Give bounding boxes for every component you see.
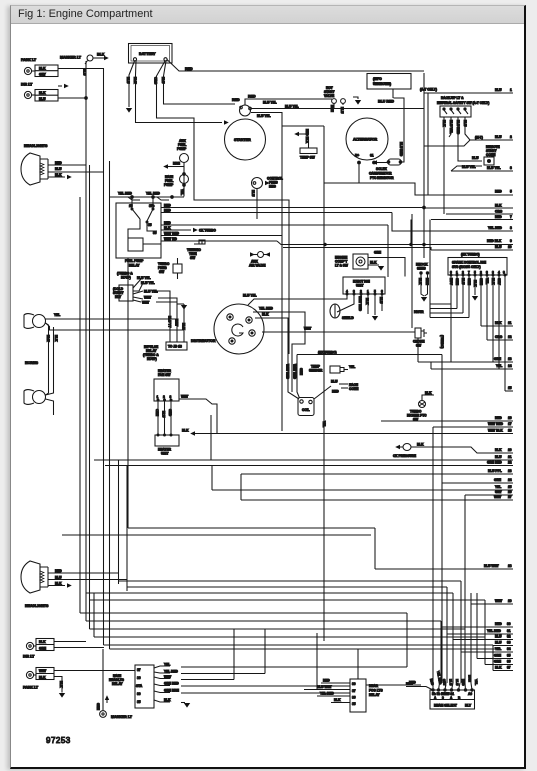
svg-text:WHT RD: WHT RD bbox=[164, 237, 177, 241]
svg-text:GRN RED: GRN RED bbox=[164, 682, 179, 686]
svg-text:WHT: WHT bbox=[175, 319, 179, 326]
svg-text:BLK: BLK bbox=[442, 120, 446, 127]
svg-text:15: 15 bbox=[508, 386, 512, 390]
svg-text:RED: RED bbox=[55, 161, 62, 165]
svg-text:GRY: GRY bbox=[495, 490, 503, 494]
svg-text:BLU YEL: BLU YEL bbox=[449, 120, 453, 134]
svg-text:WHT RED: WHT RED bbox=[358, 296, 362, 312]
svg-text:KOTF): KOTF) bbox=[147, 357, 157, 361]
svg-text:GRN: GRN bbox=[494, 357, 502, 361]
svg-text:WHT: WHT bbox=[142, 301, 149, 305]
svg-text:85: 85 bbox=[137, 700, 141, 704]
svg-text:UNKNOWN): UNKNOWN) bbox=[373, 82, 391, 86]
svg-text:VALVE: VALVE bbox=[324, 94, 334, 98]
svg-text:BLK: BLK bbox=[262, 313, 269, 317]
svg-text:RED: RED bbox=[495, 215, 502, 219]
svg-text:YEL RED: YEL RED bbox=[488, 226, 502, 230]
svg-text:33: 33 bbox=[507, 641, 511, 645]
svg-text:BLU YEL: BLU YEL bbox=[137, 276, 151, 280]
svg-text:RLY: RLY bbox=[115, 295, 122, 299]
svg-text:BLU: BLU bbox=[495, 88, 502, 92]
svg-text:YEL: YEL bbox=[54, 313, 60, 317]
svg-text:ORG: ORG bbox=[495, 210, 503, 214]
svg-text:RED: RED bbox=[55, 569, 62, 573]
svg-text:35: 35 bbox=[507, 654, 511, 658]
svg-text:BRN: BRN bbox=[425, 278, 429, 286]
svg-text:BLU WHT: BLU WHT bbox=[317, 685, 332, 689]
svg-text:BLU YT: BLU YT bbox=[168, 316, 172, 328]
svg-text:CARBURETOR: CARBURETOR bbox=[369, 172, 392, 176]
svg-text:PARK LT: PARK LT bbox=[23, 686, 39, 690]
svg-text:RED: RED bbox=[461, 679, 465, 687]
svg-text:BLU: BLU bbox=[251, 190, 255, 197]
svg-text:KOTF): KOTF) bbox=[121, 276, 131, 280]
svg-text:WHT: WHT bbox=[164, 675, 171, 679]
svg-text:SOLEX: SOLEX bbox=[376, 167, 388, 171]
svg-text:BLU: BLU bbox=[495, 641, 502, 645]
svg-text:BLK: BLK bbox=[39, 67, 46, 71]
svg-text:28: 28 bbox=[508, 564, 512, 568]
svg-text:16: 16 bbox=[508, 416, 512, 420]
svg-text:RED: RED bbox=[164, 221, 171, 225]
svg-text:NEUTRAL SAFETY SW (A-T ONLY): NEUTRAL SAFETY SW (A-T ONLY) bbox=[437, 101, 489, 105]
svg-text:ALTERNATOR: ALTERNATOR bbox=[353, 138, 378, 142]
svg-text:30: 30 bbox=[137, 692, 141, 696]
svg-text:CONN: CONN bbox=[486, 153, 496, 157]
svg-text:BLK: BLK bbox=[97, 53, 105, 57]
svg-text:SHIELD: SHIELD bbox=[342, 316, 354, 320]
svg-text:BLK: BLK bbox=[182, 429, 189, 433]
svg-text:RED: RED bbox=[495, 190, 502, 194]
svg-text:32: 32 bbox=[507, 635, 511, 639]
svg-text:BLU: BLU bbox=[161, 77, 165, 84]
svg-text:BLU: BLU bbox=[39, 97, 46, 101]
svg-text:BLK: BLK bbox=[59, 681, 63, 688]
svg-text:5: 5 bbox=[510, 190, 512, 194]
svg-text:REG: REG bbox=[269, 185, 276, 189]
svg-text:YEL: YEL bbox=[496, 364, 502, 368]
svg-text:GRY: GRY bbox=[39, 73, 47, 77]
svg-text:STA: STA bbox=[136, 684, 143, 688]
svg-text:RED: RED bbox=[323, 679, 330, 683]
svg-text:9: 9 bbox=[510, 239, 512, 243]
svg-text:RED: RED bbox=[185, 67, 193, 71]
svg-text:BRN: BRN bbox=[468, 675, 472, 683]
svg-text:CONN: CONN bbox=[349, 387, 359, 391]
svg-text:BLU: BLU bbox=[455, 679, 459, 686]
svg-text:WHT: WHT bbox=[144, 296, 151, 300]
svg-text:18: 18 bbox=[508, 429, 512, 433]
svg-text:ORG: ORG bbox=[495, 335, 503, 339]
svg-text:BLK: BLK bbox=[55, 173, 62, 177]
svg-text:RED: RED bbox=[164, 209, 171, 213]
svg-text:BLU WHT: BLU WHT bbox=[484, 564, 499, 568]
svg-text:BLK: BLK bbox=[39, 640, 46, 644]
svg-text:31: 31 bbox=[507, 629, 511, 633]
svg-text:WHT RED: WHT RED bbox=[286, 364, 290, 380]
svg-text:A6: A6 bbox=[468, 692, 472, 696]
svg-text:BRN: BRN bbox=[173, 162, 181, 166]
svg-text:14: 14 bbox=[508, 364, 512, 368]
svg-text:34: 34 bbox=[507, 647, 511, 651]
svg-text:BLU YEL: BLU YEL bbox=[144, 290, 158, 294]
svg-text:SENS: SENS bbox=[417, 267, 426, 271]
svg-text:UNIT: UNIT bbox=[161, 452, 168, 456]
svg-text:(M-T): (M-T) bbox=[475, 136, 483, 140]
svg-text:21: 21 bbox=[508, 455, 512, 459]
svg-text:BLU: BLU bbox=[472, 156, 479, 160]
svg-text:BLU: BLU bbox=[379, 297, 383, 304]
svg-text:BLU: BLU bbox=[495, 455, 502, 459]
svg-text:8: 8 bbox=[510, 226, 512, 230]
svg-text:RED BLK: RED BLK bbox=[487, 239, 502, 243]
svg-text:BLU: BLU bbox=[83, 69, 87, 76]
svg-text:GRN RED: GRN RED bbox=[487, 461, 502, 465]
svg-text:2: 2 bbox=[510, 135, 512, 139]
svg-text:DIR LT: DIR LT bbox=[23, 655, 35, 659]
svg-text:85: 85 bbox=[148, 223, 152, 227]
svg-text:WHT RED: WHT RED bbox=[293, 364, 297, 380]
svg-text:FAN SW: FAN SW bbox=[158, 373, 170, 377]
svg-text:BLU: BLU bbox=[340, 107, 344, 114]
svg-text:GRN: GRN bbox=[494, 478, 502, 482]
svg-text:BLU: BLU bbox=[495, 245, 502, 249]
svg-text:CK PRESSURE: CK PRESSURE bbox=[393, 454, 416, 458]
svg-text:9: 9 bbox=[442, 696, 444, 700]
svg-text:30: 30 bbox=[352, 682, 356, 686]
svg-text:RLY: RLY bbox=[465, 704, 472, 708]
svg-text:TEMP SW: TEMP SW bbox=[300, 156, 315, 160]
svg-text:BATTERY: BATTERY bbox=[139, 52, 156, 56]
svg-text:BLU YEL: BLU YEL bbox=[285, 104, 299, 108]
svg-text:BLK: BLK bbox=[495, 204, 502, 208]
svg-text:YEL RED: YEL RED bbox=[164, 670, 178, 674]
svg-text:2: 2 bbox=[163, 395, 165, 399]
svg-text:ORG: ORG bbox=[154, 77, 158, 85]
svg-text:GRD: GRD bbox=[168, 409, 172, 417]
svg-text:(TURBO): (TURBO) bbox=[440, 335, 444, 348]
svg-text:BLK: BLK bbox=[46, 335, 50, 342]
svg-text:YEL: YEL bbox=[164, 663, 170, 667]
svg-text:23: 23 bbox=[508, 469, 512, 473]
svg-text:TO JD 13: TO JD 13 bbox=[168, 345, 182, 349]
svg-text:BLU: BLU bbox=[55, 576, 62, 580]
svg-text:DIR LT: DIR LT bbox=[21, 83, 33, 87]
svg-text:(EX TURBO): (EX TURBO) bbox=[318, 351, 337, 355]
svg-text:87b: 87b bbox=[149, 204, 155, 208]
svg-text:BLK: BLK bbox=[417, 443, 424, 447]
svg-text:29: 29 bbox=[508, 599, 512, 603]
svg-text:25: 25 bbox=[508, 485, 512, 489]
svg-text:30: 30 bbox=[507, 622, 511, 626]
svg-text:24: 24 bbox=[508, 478, 512, 482]
svg-text:10: 10 bbox=[508, 245, 512, 249]
svg-text:(INFO: (INFO bbox=[373, 77, 382, 81]
svg-text:AIR VALVE: AIR VALVE bbox=[249, 264, 266, 268]
svg-text:11: 11 bbox=[508, 321, 512, 325]
svg-text:86: 86 bbox=[137, 676, 141, 680]
svg-text:YEL RED: YEL RED bbox=[487, 629, 501, 633]
svg-text:BLK: BLK bbox=[39, 675, 46, 679]
svg-text:RELAY: RELAY bbox=[129, 264, 140, 268]
svg-text:BLK: BLK bbox=[425, 391, 432, 395]
svg-text:YEL: YEL bbox=[349, 365, 355, 369]
svg-text:RELAY: RELAY bbox=[112, 682, 123, 686]
svg-text:RED: RED bbox=[164, 204, 171, 208]
svg-text:RELAY: RELAY bbox=[369, 693, 380, 697]
svg-text:STARTER: STARTER bbox=[234, 138, 251, 142]
svg-text:BLU YEL: BLU YEL bbox=[243, 294, 257, 298]
svg-text:GRY: GRY bbox=[442, 679, 447, 687]
svg-text:GRN BRN: GRN BRN bbox=[164, 689, 180, 693]
svg-text:37: 37 bbox=[507, 666, 511, 670]
svg-text:BLU PPL: BLU PPL bbox=[488, 469, 502, 473]
svg-text:PUMP: PUMP bbox=[177, 147, 187, 151]
svg-text:85: 85 bbox=[352, 702, 356, 706]
svg-text:BLU: BLU bbox=[495, 135, 502, 139]
svg-text:BLK: BLK bbox=[55, 582, 62, 586]
svg-text:YEL RED: YEL RED bbox=[146, 192, 160, 196]
svg-text:WHT: WHT bbox=[495, 599, 502, 603]
svg-text:BLU: BLU bbox=[55, 167, 62, 171]
svg-text:B+: B+ bbox=[355, 154, 359, 158]
svg-text:RED: RED bbox=[406, 682, 413, 686]
svg-text:PUMP: PUMP bbox=[164, 183, 174, 187]
svg-text:BLK: BLK bbox=[54, 335, 58, 342]
svg-text:UNIT: UNIT bbox=[356, 284, 363, 288]
svg-text:7: 7 bbox=[510, 215, 512, 219]
svg-text:20: 20 bbox=[508, 448, 512, 452]
svg-text:LT & SW: LT & SW bbox=[335, 264, 348, 268]
svg-text:BLU YEL: BLU YEL bbox=[257, 114, 271, 118]
svg-text:GRN: GRN bbox=[494, 654, 502, 658]
svg-text:WHT RED: WHT RED bbox=[488, 422, 504, 426]
svg-text:26: 26 bbox=[508, 490, 512, 494]
svg-text:DISTR: DISTR bbox=[414, 310, 424, 314]
svg-text:CK TURBO: CK TURBO bbox=[199, 229, 216, 233]
svg-text:BLK: BLK bbox=[495, 321, 502, 325]
svg-text:RED: RED bbox=[248, 95, 256, 99]
svg-text:YEL RED: YEL RED bbox=[259, 307, 273, 311]
svg-text:BLK: BLK bbox=[370, 261, 377, 265]
svg-text:61: 61 bbox=[370, 154, 374, 158]
svg-text:HEADLIGHTS: HEADLIGHTS bbox=[25, 604, 49, 608]
svg-text:BLU YEL: BLU YEL bbox=[487, 166, 501, 170]
svg-text:SW: SW bbox=[416, 344, 421, 348]
svg-text:30: 30 bbox=[153, 231, 157, 235]
svg-text:SENDER: SENDER bbox=[309, 369, 323, 373]
svg-text:36: 36 bbox=[507, 660, 511, 664]
svg-text:MARKER LT: MARKER LT bbox=[111, 715, 133, 719]
svg-text:SW: SW bbox=[159, 270, 164, 274]
svg-text:(EX TURBO): (EX TURBO) bbox=[461, 253, 480, 257]
svg-text:GRN: GRN bbox=[299, 368, 303, 376]
svg-text:ORN: ORN bbox=[155, 409, 159, 417]
svg-text:BLU: BLU bbox=[463, 120, 467, 127]
svg-text:WHT: WHT bbox=[181, 395, 188, 399]
svg-text:87: 87 bbox=[352, 689, 356, 693]
svg-text:WHT: WHT bbox=[494, 495, 501, 499]
svg-text:YEL: YEL bbox=[495, 647, 501, 651]
svg-text:PTC RESISTOR: PTC RESISTOR bbox=[370, 176, 394, 180]
svg-text:BLU: BLU bbox=[126, 77, 130, 84]
svg-text:MARKER LT: MARKER LT bbox=[60, 56, 82, 60]
svg-text:HEADLIGHTS: HEADLIGHTS bbox=[24, 144, 48, 148]
svg-text:(A-T ONLY): (A-T ONLY) bbox=[420, 88, 437, 92]
svg-text:17: 17 bbox=[508, 422, 512, 426]
svg-text:GRN: GRN bbox=[39, 646, 47, 650]
svg-text:BLU: BLU bbox=[495, 635, 502, 639]
svg-text:DISTRIBUTOR: DISTRIBUTOR bbox=[191, 339, 216, 343]
svg-text:BEAM SELECT: BEAM SELECT bbox=[434, 704, 457, 708]
svg-text:BLU: BLU bbox=[162, 411, 166, 418]
svg-text:BLK: BLK bbox=[39, 91, 46, 95]
svg-text:COIL: COIL bbox=[302, 408, 310, 412]
svg-text:13: 13 bbox=[508, 357, 512, 361]
svg-text:YEL: YEL bbox=[474, 679, 478, 685]
svg-text:BLU YEL: BLU YEL bbox=[263, 101, 277, 105]
svg-text:WHT BLK: WHT BLK bbox=[488, 429, 503, 433]
svg-text:BLK: BLK bbox=[164, 226, 171, 230]
svg-text:WHT: WHT bbox=[39, 669, 46, 673]
svg-text:1: 1 bbox=[157, 395, 159, 399]
svg-text:BLK: BLK bbox=[495, 448, 502, 452]
svg-text:BLK: BLK bbox=[418, 278, 422, 285]
svg-text:BACK-UP LT &: BACK-UP LT & bbox=[441, 96, 464, 100]
svg-text:3: 3 bbox=[170, 395, 172, 399]
svg-text:RED: RED bbox=[232, 98, 240, 102]
svg-text:RED: RED bbox=[429, 678, 435, 686]
svg-text:RED: RED bbox=[495, 622, 502, 626]
svg-text:3: 3 bbox=[510, 166, 512, 170]
svg-text:BLK: BLK bbox=[133, 77, 137, 84]
svg-text:GRN: GRN bbox=[374, 251, 382, 255]
svg-text:27: 27 bbox=[508, 495, 512, 499]
svg-text:BLK: BLK bbox=[334, 698, 341, 702]
svg-text:BLK: BLK bbox=[182, 323, 186, 330]
svg-text:GRN: GRN bbox=[494, 660, 502, 664]
svg-text:22: 22 bbox=[508, 461, 512, 465]
svg-text:WHT RED: WHT RED bbox=[164, 231, 180, 235]
svg-text:HORNS: HORNS bbox=[25, 361, 39, 365]
svg-text:87: 87 bbox=[137, 668, 141, 672]
svg-text:BLU YEL: BLU YEL bbox=[141, 281, 155, 285]
svg-text:RED: RED bbox=[332, 390, 339, 394]
svg-text:BLK: BLK bbox=[495, 666, 502, 670]
svg-text:FOG LTS: FOG LTS bbox=[369, 689, 383, 693]
svg-text:SW: SW bbox=[190, 256, 195, 260]
svg-text:BLU: BLU bbox=[331, 380, 338, 384]
svg-text:SPARK CONTROL IGN: SPARK CONTROL IGN bbox=[452, 261, 487, 265]
svg-text:SYS (1983½ ONLY): SYS (1983½ ONLY) bbox=[452, 265, 481, 269]
svg-text:12: 12 bbox=[508, 335, 512, 339]
svg-text:YEL: YEL bbox=[495, 485, 501, 489]
svg-text:BLU RED: BLU RED bbox=[456, 120, 460, 135]
svg-text:YEL: YEL bbox=[180, 189, 184, 195]
svg-text:1: 1 bbox=[510, 88, 512, 92]
svg-text:BLU RED: BLU RED bbox=[399, 142, 403, 157]
svg-text:BLK: BLK bbox=[164, 698, 171, 702]
svg-text:BLU RED: BLU RED bbox=[378, 100, 394, 104]
svg-text:BLK: BLK bbox=[365, 298, 369, 305]
svg-text:PARK LT: PARK LT bbox=[21, 58, 37, 62]
svg-text:YEL RED: YEL RED bbox=[320, 692, 334, 696]
svg-text:BLU: BLU bbox=[449, 679, 453, 686]
svg-text:BRN: BRN bbox=[330, 105, 334, 113]
svg-text:GRN: GRN bbox=[96, 703, 100, 711]
svg-text:RED: RED bbox=[495, 416, 502, 420]
svg-text:YEL RED: YEL RED bbox=[118, 192, 132, 196]
svg-text:86: 86 bbox=[352, 696, 356, 700]
svg-text:97253: 97253 bbox=[46, 736, 71, 745]
